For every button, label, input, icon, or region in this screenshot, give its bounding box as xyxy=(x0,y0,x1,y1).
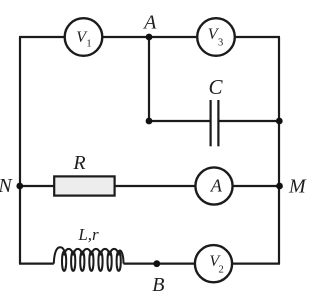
svg-text:1: 1 xyxy=(86,38,91,49)
svg-text:M: M xyxy=(288,176,307,198)
svg-text:A: A xyxy=(142,12,157,34)
svg-text:A: A xyxy=(210,176,223,196)
svg-text:N: N xyxy=(0,175,13,197)
svg-text:B: B xyxy=(152,274,164,296)
svg-text:3: 3 xyxy=(218,38,223,49)
svg-text:2: 2 xyxy=(219,265,224,276)
svg-text:R: R xyxy=(72,152,85,174)
svg-text:L,r: L,r xyxy=(77,225,99,244)
svg-text:C: C xyxy=(208,75,223,99)
